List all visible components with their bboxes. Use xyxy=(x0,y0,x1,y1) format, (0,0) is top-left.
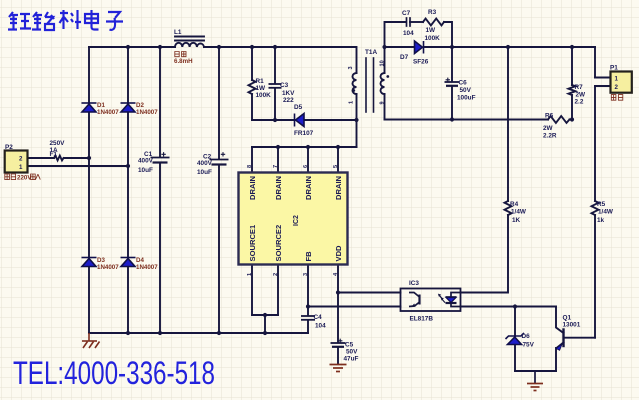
IC2 pin7 stub xyxy=(277,147,279,173)
svg-text:1/4W: 1/4W xyxy=(511,209,527,216)
svg-text:C6: C6 xyxy=(459,80,468,87)
svg-text:2: 2 xyxy=(615,84,619,91)
IC2 pin numbers top xyxy=(247,165,339,168)
svg-text:R6: R6 xyxy=(545,113,554,120)
svg-text:1: 1 xyxy=(19,164,23,171)
svg-text:DRAIN: DRAIN xyxy=(304,176,313,200)
svg-text:104: 104 xyxy=(403,30,414,37)
char 铭 xyxy=(32,12,42,30)
svg-text:D1: D1 xyxy=(97,102,105,109)
transistor Q1 bar xyxy=(562,330,564,347)
svg-text:1N4007: 1N4007 xyxy=(136,264,158,271)
resistor R3 xyxy=(423,19,444,26)
svg-text:10uF: 10uF xyxy=(197,169,212,176)
svg-text:1: 1 xyxy=(349,101,355,104)
inductor L1 core lines xyxy=(175,36,204,38)
resistor R1 xyxy=(249,80,256,94)
zener D6 xyxy=(506,333,525,345)
wire source to bottom bus xyxy=(264,315,266,333)
wire VDD to optocoupler xyxy=(338,292,401,294)
svg-text:2W: 2W xyxy=(576,92,587,99)
transistor Q1 emitter wire xyxy=(556,343,564,372)
svg-text:222: 222 xyxy=(283,97,294,104)
svg-text:8: 8 xyxy=(247,165,253,168)
svg-text:10: 10 xyxy=(380,60,386,66)
connector P1 xyxy=(611,72,632,93)
svg-text:SOURCE2: SOURCE2 xyxy=(274,225,283,262)
resistor R1 branch wire xyxy=(251,47,253,80)
wire top rail left (bridge output to L1) xyxy=(89,46,175,48)
transformer T1A primary phase mark xyxy=(352,89,355,92)
svg-text:1k: 1k xyxy=(597,217,605,224)
svg-text:104: 104 xyxy=(315,323,326,330)
transformer T1A secondary coil xyxy=(381,73,385,94)
wire secondary bottom riser xyxy=(384,94,386,120)
zener D6 branch wire xyxy=(514,307,516,337)
resistor R7 branch wire xyxy=(571,47,573,85)
svg-text:VDD: VDD xyxy=(334,245,343,262)
ground chassis (bridge negative) xyxy=(82,333,100,348)
resistor R5 xyxy=(592,201,599,215)
svg-text:IC2: IC2 xyxy=(293,215,300,226)
wire fuse to bridge node xyxy=(64,157,89,159)
diode D3 xyxy=(82,258,97,267)
svg-text:1K: 1K xyxy=(512,217,521,224)
svg-text:IC3: IC3 xyxy=(409,280,419,287)
svg-text:C7: C7 xyxy=(402,10,411,17)
svg-text:FB: FB xyxy=(304,251,313,262)
svg-text:C3: C3 xyxy=(280,82,289,89)
char 子 xyxy=(106,12,123,30)
svg-text:L1: L1 xyxy=(174,29,182,36)
IC2 pin2 stub xyxy=(277,265,279,316)
char 钲 xyxy=(8,12,18,30)
svg-text:P2: P2 xyxy=(5,144,13,151)
diode D1 xyxy=(82,103,97,112)
wire bottom bus xyxy=(89,332,308,334)
inductor L1 coil xyxy=(175,43,204,47)
wire optocoupler collector to R4 xyxy=(461,215,509,293)
svg-text:SF26: SF26 xyxy=(413,59,429,66)
capacitor C5 plates xyxy=(331,339,346,347)
svg-text:250V: 250V xyxy=(50,140,66,147)
svg-text:DRAIN: DRAIN xyxy=(274,176,283,200)
svg-text:TEL:4000-336-518: TEL:4000-336-518 xyxy=(13,355,215,391)
svg-text:DRAIN: DRAIN xyxy=(248,176,257,200)
svg-text:3: 3 xyxy=(348,66,354,69)
wire snubber bottom to D5 xyxy=(252,119,295,121)
IC2 pin5 stub xyxy=(337,147,339,173)
svg-text:50V: 50V xyxy=(346,349,358,356)
IC2 pin3 FB stub xyxy=(307,265,309,307)
resistor R4 xyxy=(505,201,512,215)
svg-text:F1: F1 xyxy=(50,151,58,158)
op-amp IC2 main controller body xyxy=(239,173,348,265)
svg-text:1N4007: 1N4007 xyxy=(97,264,119,271)
wire bridge right leg x=128 xyxy=(127,47,129,103)
svg-text:1/4W: 1/4W xyxy=(598,209,614,216)
svg-text:R7: R7 xyxy=(575,84,584,91)
wire transformer primary bottom down to drain bus xyxy=(356,94,358,147)
char 电 xyxy=(85,10,99,30)
svg-text:50V: 50V xyxy=(460,87,472,94)
wire bridge left leg x=89 xyxy=(88,47,90,103)
svg-text:6.8mH: 6.8mH xyxy=(174,58,193,65)
snubber left leg wire xyxy=(385,22,406,47)
company title (Chinese: Zhengmingke Electronics) xyxy=(8,10,123,30)
svg-text:D3: D3 xyxy=(97,257,105,264)
svg-text:C5: C5 xyxy=(345,342,354,349)
wire source pins join xyxy=(252,314,278,316)
svg-text:9: 9 xyxy=(380,101,386,104)
svg-text:100K: 100K xyxy=(425,35,441,42)
wire R4 to top rail xyxy=(507,47,509,201)
wire output minus column x=595 xyxy=(594,47,596,78)
capacitor C3 branch wire xyxy=(274,47,276,84)
capacitor C4 plates xyxy=(301,316,315,320)
svg-text:6: 6 xyxy=(303,165,309,168)
labels: maroon texts xyxy=(97,58,193,271)
svg-text:D2: D2 xyxy=(136,102,144,109)
wire capacitor C2 branch xyxy=(218,47,220,159)
wire C7 to R3 xyxy=(410,21,423,23)
wire bottom D6 to Q1 emitter xyxy=(515,370,556,372)
capacitor C6 branch wire xyxy=(451,47,453,82)
svg-text:1W: 1W xyxy=(256,85,267,92)
svg-text:75V: 75V xyxy=(523,342,535,349)
svg-text:FR107: FR107 xyxy=(294,130,314,137)
svg-text:SOURCE1: SOURCE1 xyxy=(248,224,257,261)
optocoupler IC3 xyxy=(401,289,461,312)
svg-text:R5: R5 xyxy=(597,201,606,208)
svg-text:100uF: 100uF xyxy=(457,95,476,102)
svg-text:1N4007: 1N4007 xyxy=(136,109,158,116)
capacitor C2 xyxy=(210,152,229,164)
ground under C5 xyxy=(330,365,347,372)
svg-text:10uF: 10uF xyxy=(138,167,153,174)
transformer pin numbers xyxy=(348,60,386,104)
label P2 Chinese (AC 220V input) xyxy=(17,174,32,181)
char 科 xyxy=(60,10,69,29)
svg-text:400V: 400V xyxy=(138,158,154,165)
svg-text:3: 3 xyxy=(303,273,309,276)
diode D5 xyxy=(295,114,305,127)
diode D2 xyxy=(121,103,136,112)
svg-text:1KV: 1KV xyxy=(282,90,295,97)
transformer T1A primary coil xyxy=(353,73,357,94)
diode D7 xyxy=(415,41,424,54)
svg-text:DRAIN: DRAIN xyxy=(334,176,343,200)
svg-text:47uF: 47uF xyxy=(344,356,359,363)
transistor Q1 emitter arrow xyxy=(556,344,562,350)
capacitor C7 plates xyxy=(406,18,408,26)
svg-text:R1: R1 xyxy=(256,78,265,85)
capacitor C6 plates xyxy=(445,78,460,86)
diode D4 xyxy=(121,258,136,267)
wire capacitor C1 branch xyxy=(159,47,161,157)
svg-text:1N4007: 1N4007 xyxy=(97,109,119,116)
svg-text:5: 5 xyxy=(333,165,339,168)
svg-text:1W: 1W xyxy=(426,27,437,34)
resistor R7 xyxy=(569,85,576,95)
transistor Q1 base wire xyxy=(564,337,596,339)
connector P2 xyxy=(5,151,28,173)
svg-text:D6: D6 xyxy=(522,333,531,340)
svg-text:2.2: 2.2 xyxy=(575,99,584,106)
svg-text:C4: C4 xyxy=(314,314,323,321)
transistor Q1 collector wire xyxy=(556,307,564,334)
wire D7 to output rail xyxy=(424,46,595,48)
transformer T1A core xyxy=(365,58,367,112)
svg-text:1: 1 xyxy=(247,273,253,276)
svg-text:2W: 2W xyxy=(543,125,554,132)
wire drain bus xyxy=(252,146,357,148)
wire P2 pin1 to bridge node xyxy=(28,165,129,167)
svg-text:100K: 100K xyxy=(256,92,272,99)
svg-text:2: 2 xyxy=(273,273,279,276)
svg-text:2.2R: 2.2R xyxy=(543,133,557,140)
wire output ground rail xyxy=(385,119,549,121)
capacitor C1 xyxy=(151,152,170,162)
wire D5 to transformer primary bottom xyxy=(304,119,357,121)
svg-text:EL817B: EL817B xyxy=(410,316,434,323)
wire secondary rail to D7 xyxy=(385,46,415,48)
capacitor C4 branch wire xyxy=(307,307,309,316)
ground bottom right xyxy=(527,371,543,391)
svg-text:Q1: Q1 xyxy=(563,315,572,322)
wire P2 pin2 to fuse xyxy=(28,157,55,159)
svg-text:1: 1 xyxy=(615,76,619,83)
svg-text:7: 7 xyxy=(273,165,279,168)
wire secondary top riser xyxy=(384,47,386,73)
svg-text:D7: D7 xyxy=(400,54,409,61)
svg-text:P1: P1 xyxy=(610,65,618,72)
IC2 pin8 stub xyxy=(251,147,253,173)
svg-text:D4: D4 xyxy=(136,257,144,264)
svg-text:2: 2 xyxy=(19,156,23,163)
IC2 pin numbers bottom xyxy=(247,272,339,276)
svg-text:R4: R4 xyxy=(510,201,519,208)
svg-text:400V: 400V xyxy=(197,160,213,167)
resistor R6 xyxy=(548,116,570,123)
IC2 pin1 stub xyxy=(251,265,253,316)
IC2 pin6 stub xyxy=(307,147,309,173)
transformer T1A secondary phase mark xyxy=(386,75,389,78)
wire optocoupler cathode to Q1 base node xyxy=(461,306,557,308)
svg-text:D5: D5 xyxy=(294,104,303,111)
fuse F1 xyxy=(54,156,64,161)
snubber right leg wire xyxy=(444,22,452,47)
capacitor C3 plates xyxy=(269,84,282,88)
svg-text:T1A: T1A xyxy=(365,49,377,56)
wire top rail right of L1 to transformer primary xyxy=(204,47,357,73)
svg-text:R3: R3 xyxy=(428,9,437,16)
capacitor C5 branch wire xyxy=(337,293,339,343)
label L1 Chinese (inductance) xyxy=(175,52,186,57)
label P1 Chinese (output) xyxy=(611,95,623,101)
svg-text:220V: 220V xyxy=(17,174,32,181)
svg-text:13001: 13001 xyxy=(563,322,581,329)
wire FB to optocoupler xyxy=(308,306,401,308)
IC2 pin4 VDD stub xyxy=(337,265,339,293)
